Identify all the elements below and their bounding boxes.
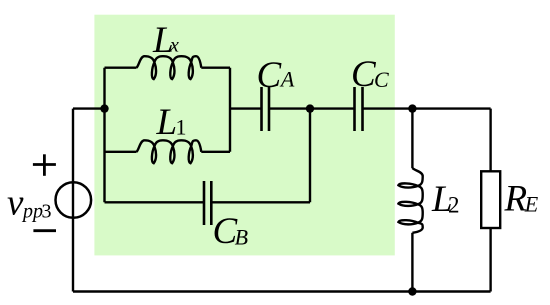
svg-text:pp: pp [21,201,43,223]
svg-text:v: v [7,183,24,224]
svg-text:E: E [524,192,539,217]
svg-text:L: L [156,102,178,143]
svg-text:3: 3 [42,201,52,223]
svg-text:C: C [374,67,389,92]
svg-text:C: C [257,55,283,96]
svg-text:A: A [279,67,295,92]
svg-text:B: B [235,225,248,250]
svg-text:R: R [504,178,528,219]
svg-text:2: 2 [448,193,460,218]
svg-text:x: x [169,35,179,57]
svg-text:1: 1 [176,114,187,139]
